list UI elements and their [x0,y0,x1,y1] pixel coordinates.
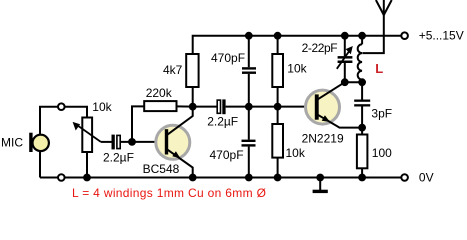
svg-text:2.2µF: 2.2µF [103,151,134,165]
node bottom pot [83,174,91,182]
node tank coil bottom [358,78,366,86]
node mid 10k [274,103,282,111]
resistor 10k top [272,54,283,87]
wire 470pF bottom branch [248,107,250,140]
wire bottom rail [40,177,404,179]
node ground [316,174,324,182]
capacitor 470pF top [242,67,256,74]
ground symbol [313,190,328,193]
wire 4k7 bottom lead [192,87,194,107]
trimmer capacitor 2-22pF [337,46,353,69]
node tank varcap bottom [341,78,349,86]
svg-text:+5...15V: +5...15V [419,29,464,43]
antenna [376,0,392,15]
resistor 220k [144,101,176,111]
wire 10k top branch [277,36,279,54]
wire 10k bottom branch [277,107,279,124]
node bottom 10k [274,174,282,182]
svg-text:100: 100 [372,146,392,160]
svg-text:10k: 10k [92,100,112,114]
capacitor 3pF [354,100,370,107]
terminal mic bottom [58,174,65,181]
svg-text:470pF: 470pF [211,51,245,65]
node collector BC548 [189,103,197,111]
wire 220k feedback [132,106,144,141]
resistor 4k7 [186,54,198,87]
wire 100 branch [361,128,363,135]
node bottom 100 [358,174,366,182]
wire mid rail left [193,106,217,108]
capacitor 470pF bottom [242,140,256,147]
terminal mic top [58,103,65,110]
capacitor C1 2.2uF input electrolytic [112,135,121,150]
node emitter 2N2219 [358,124,366,132]
svg-text:BC548: BC548 [143,162,180,176]
svg-text:2.2µF: 2.2µF [207,115,238,129]
wire coil top stub [361,36,363,45]
node bottom 470pF [245,174,253,182]
wire top rail [193,36,405,54]
node top coil [358,32,366,40]
svg-text:10k: 10k [287,62,307,76]
svg-text:10k: 10k [286,146,306,160]
potentiometer 10k [73,118,101,153]
wire var cap branch [344,36,346,56]
svg-text:2N2219: 2N2219 [302,132,344,146]
terminal supply [401,32,408,39]
node top varcap [341,32,349,40]
wire antenna tap [362,15,383,53]
svg-text:2-22pF: 2-22pF [302,41,338,55]
wire tank bottom [345,81,362,83]
resistor 10k bottom [272,124,283,158]
wire 3pF branch [361,82,363,99]
svg-text:L: L [375,61,383,76]
svg-text:0V: 0V [419,170,434,184]
transistor Q1 BC548 [156,107,193,178]
transistor Q2 2N2219 [306,82,362,127]
svg-text:220k: 220k [146,86,173,100]
node base BC548 [128,138,136,146]
terminal 0V [401,174,408,181]
node top 470pF [245,32,253,40]
microphone MIC [29,133,49,152]
svg-text:L = 4 windings 1mm Cu on 6mm Ø: L = 4 windings 1mm Cu on 6mm Ø [72,186,266,200]
wire ground stub [319,178,321,191]
wire 470pF top branch [248,36,250,67]
inductor L coil [358,44,362,79]
svg-text:3pF: 3pF [371,107,392,121]
wire pot bottom [86,152,88,178]
node bottom emitter BC548 [189,174,197,182]
svg-text:470pF: 470pF [210,148,244,162]
svg-text:4k7: 4k7 [163,63,183,77]
wire mic loop [40,107,87,178]
capacitor C2 2.2uF coupling electrolytic [217,99,225,114]
wire base node BC548 [121,141,164,143]
wire mid rail right [226,106,315,108]
wire 220k right lead [177,105,193,107]
node mid 470pF [245,103,253,111]
resistor 100 [357,135,368,169]
wire pot wiper to cap [101,141,112,143]
svg-text:MIC: MIC [1,136,23,150]
wire coil bottom stub [361,80,363,83]
node top 10k [274,32,282,40]
